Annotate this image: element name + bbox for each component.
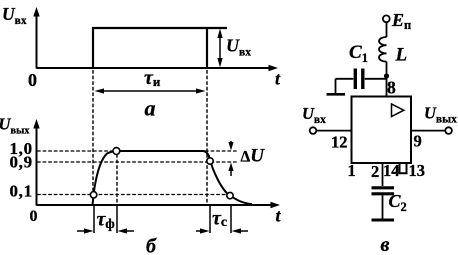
svg-text:2: 2 — [371, 162, 379, 181]
svg-text:а: а — [145, 96, 156, 121]
svg-text:8: 8 — [387, 78, 396, 98]
svg-text:Uвых: Uвых — [0, 115, 30, 137]
svg-text:t: t — [276, 206, 282, 226]
svg-text:τи: τи — [144, 67, 161, 89]
svg-text:0: 0 — [30, 208, 38, 225]
svg-text:τс: τс — [212, 208, 227, 231]
svg-text:в: в — [381, 234, 390, 255]
svg-text:Uвх: Uвх — [226, 36, 251, 59]
svg-text:L: L — [395, 45, 408, 66]
svg-text:C1: C1 — [349, 42, 368, 65]
svg-text:t: t — [275, 69, 281, 89]
svg-text:C2: C2 — [389, 191, 407, 214]
svg-text:ΔU: ΔU — [241, 146, 266, 167]
svg-text:τф: τф — [97, 209, 115, 232]
svg-text:14: 14 — [383, 161, 400, 180]
svg-text:9: 9 — [414, 132, 422, 151]
svg-text:12: 12 — [331, 133, 348, 152]
svg-text:1: 1 — [348, 161, 356, 180]
svg-text:Eп: Eп — [391, 10, 411, 32]
svg-text:Uвых: Uвых — [424, 104, 457, 126]
svg-text:0,9: 0,9 — [9, 153, 32, 172]
svg-text:Uвх: Uвх — [2, 4, 27, 27]
svg-text:0: 0 — [28, 70, 37, 90]
svg-text:0,1: 0,1 — [9, 182, 32, 201]
svg-text:13: 13 — [409, 161, 426, 180]
svg-text:б: б — [146, 236, 157, 255]
svg-text:Uвх: Uвх — [302, 104, 326, 126]
